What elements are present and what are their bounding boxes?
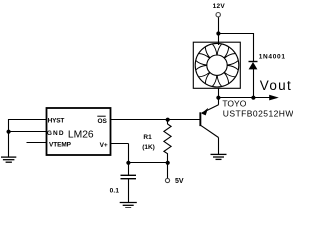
svg-text:1N4001: 1N4001: [259, 54, 286, 61]
svg-text:HYST: HYST: [48, 117, 65, 124]
svg-text:(1K): (1K): [142, 144, 155, 151]
svg-text:USTFB02512HW: USTFB02512HW: [223, 109, 293, 119]
svg-text:5V: 5V: [175, 178, 184, 185]
svg-text:V+: V+: [100, 142, 108, 149]
svg-text:TOYO: TOYO: [222, 99, 246, 109]
svg-text:OS: OS: [98, 118, 108, 125]
svg-text:12V: 12V: [213, 3, 226, 10]
svg-text:0.1: 0.1: [110, 187, 120, 194]
svg-text:GND: GND: [47, 130, 65, 137]
svg-text:LM26: LM26: [68, 130, 94, 141]
svg-text:R1: R1: [143, 134, 152, 141]
svg-text:Vout: Vout: [260, 78, 292, 93]
svg-text:VTEMP: VTEMP: [49, 141, 72, 148]
